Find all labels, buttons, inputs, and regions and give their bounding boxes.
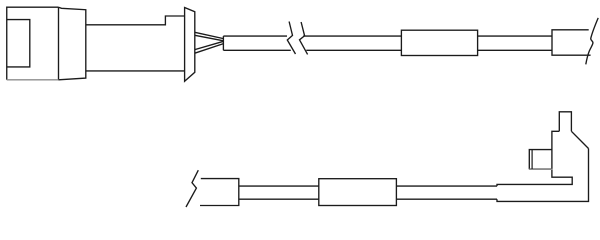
right break squiggle: [586, 18, 598, 65]
cable to right connector: [478, 35, 552, 37]
cable bottom line to break: [223, 49, 290, 51]
right end housing (open right): [552, 30, 591, 55]
break zigzag lower-left: [186, 170, 198, 207]
lower cable 1: [239, 185, 319, 187]
break zigzag right: [300, 22, 308, 54]
sensor bracket bottom outline: [497, 149, 589, 202]
sensor tab: [559, 112, 571, 132]
lower cable 2: [396, 185, 497, 187]
sensor diagonal corner: [571, 131, 588, 148]
connector housing outer box: [7, 7, 59, 80]
cable top line to break: [223, 35, 287, 37]
connector socket opening inner box: [7, 20, 30, 67]
sensor bracket top outline with step: [497, 131, 572, 186]
mid sleeve rectangle: [401, 30, 477, 55]
cable top line after break: [303, 35, 401, 37]
sensor clip bottom edge (gray): [529, 168, 553, 170]
lower left sleeve rect (open left): [200, 179, 239, 206]
wire lower pair: [195, 41, 224, 49]
shaft top line with step: [86, 16, 185, 25]
sensor clip inner edge: [531, 150, 533, 169]
cable bottom line after break: [306, 49, 401, 51]
connector collar (tapered boot): [59, 7, 86, 80]
break zigzag left: [287, 22, 295, 55]
wire upper pair: [195, 32, 224, 38]
grommet (strain relief trapezoid): [185, 8, 195, 82]
sensor clip: [529, 150, 552, 169]
lower mid sleeve rectangle: [319, 179, 397, 206]
cable sheath left end: [222, 36, 224, 50]
connector housing bottom edge (gray): [7, 79, 59, 81]
shaft bottom line: [86, 70, 185, 72]
